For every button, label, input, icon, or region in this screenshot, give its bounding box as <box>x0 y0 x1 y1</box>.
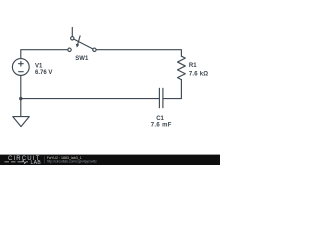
wire from switch right terminal to top-right corner and down to R1 <box>96 50 181 57</box>
ground symbol triangle <box>13 117 29 127</box>
switch SW1 arrow head <box>76 44 80 48</box>
switch SW1 blade from top circle to right terminal <box>74 39 93 49</box>
svg-text:7.6 mF: 7.6 mF <box>151 123 172 129</box>
switch SW1 actuation arrow shaft <box>77 36 80 45</box>
wire R1 bottom to bottom rail left to capacitor right plate <box>163 80 181 99</box>
wire top-left from V1 up and right to switch <box>21 50 68 59</box>
svg-text:7.6 kΩ: 7.6 kΩ <box>189 71 208 77</box>
svg-text:R1: R1 <box>189 63 197 69</box>
svg-text:http://circuitlab.com/cqsx4pyr: http://circuitlab.com/cqsx4pyrzw6z <box>47 160 97 164</box>
junction node dot <box>19 97 22 100</box>
wire capacitor left plate to junction at left <box>21 98 159 100</box>
switch SW1 top throw circle <box>71 37 74 40</box>
footer divider line <box>44 156 46 163</box>
svg-text:6.76 V: 6.76 V <box>35 70 52 76</box>
voltage source V1 circle <box>12 59 29 76</box>
switch SW1 right terminal circle <box>93 48 96 51</box>
CircuitLab logo waveform squiggle <box>5 160 29 163</box>
svg-text:SW1: SW1 <box>75 56 89 62</box>
V1 minus sign <box>19 71 24 73</box>
svg-text:C1: C1 <box>156 116 164 122</box>
switch SW1 top throw stub <box>71 27 73 36</box>
wire V1 bottom down through junction to ground <box>20 75 22 116</box>
capacitor C1 left plate <box>158 88 160 107</box>
switch SW1 left terminal circle <box>68 48 71 51</box>
capacitor C1 right plate <box>162 88 164 107</box>
footer watermark bar <box>0 155 220 165</box>
V1 plus sign <box>19 61 24 66</box>
svg-text:LAB: LAB <box>31 160 42 165</box>
svg-text:V1: V1 <box>35 64 43 70</box>
resistor R1 zigzag <box>178 56 186 79</box>
